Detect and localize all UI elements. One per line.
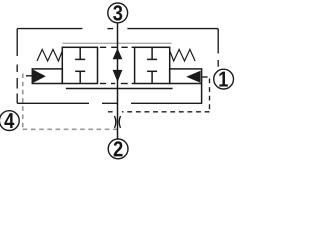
boundary: cartridge dashed box bottom edge bbox=[17, 102, 201, 104]
pilot arrow left (solid triangle pointing right) bbox=[33, 70, 46, 83]
valve center position dashed top edge bbox=[100, 46, 135, 48]
valve envelope left position (blocked) bbox=[62, 47, 97, 83]
blocked port T bottom, left envelope bbox=[75, 71, 85, 83]
orifice on port 2 line bbox=[115, 116, 121, 128]
blocked port T top, left envelope bbox=[75, 47, 85, 59]
spring right bbox=[170, 49, 195, 61]
boundary: cartridge dashed box top edge bbox=[17, 28, 218, 30]
wire: gray pilot line below orifice (horizontal to port 2 line) bbox=[23, 128, 118, 130]
blocked port T top, right envelope bbox=[147, 47, 157, 59]
wire: gray spool overline above envelopes bbox=[62, 42, 171, 44]
pilot arrow right (solid triangle pointing left) bbox=[186, 71, 200, 83]
pilot stub left bbox=[26, 75, 32, 77]
blocked port T bottom, right envelope bbox=[147, 71, 157, 83]
boundary: cartridge dashed box right edge bbox=[217, 29, 219, 67]
pilot box right bbox=[170, 69, 202, 84]
port circle 2 (bottom) bbox=[108, 139, 128, 159]
port circle 3 (top) bbox=[108, 3, 128, 23]
wire: right pilot box edge extension down to boundary bbox=[201, 84, 203, 104]
port circle 1 (right) bbox=[214, 69, 234, 89]
port circle 4 (bottom left) bbox=[0, 111, 19, 131]
pilot box left bbox=[32, 69, 62, 84]
flow arrow up (center position) bbox=[113, 48, 123, 59]
boundary: cartridge dashed box left edge bbox=[16, 29, 18, 104]
flow arrow down (center position) bbox=[113, 70, 123, 82]
valve center position dashed bottom edge bbox=[100, 83, 135, 85]
node: main vertical line port 3 to port 2 bbox=[117, 23, 119, 139]
wire: gray pilot line from port 4 region (vertical) bbox=[22, 74, 24, 130]
wire: dashed pilot line from right box to port 1 side bbox=[108, 77, 210, 112]
valve envelope right position (blocked) bbox=[135, 47, 170, 83]
spring left bbox=[37, 49, 62, 61]
spool underline below envelopes bbox=[66, 88, 173, 90]
